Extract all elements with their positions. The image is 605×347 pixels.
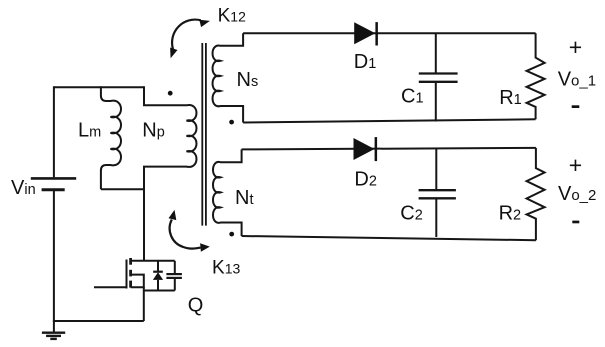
svg-text:Nt: Nt	[235, 187, 253, 209]
svg-text:Vo_1: Vo_1	[558, 68, 596, 90]
svg-text:Vin: Vin	[11, 177, 36, 199]
svg-text:D1: D1	[354, 51, 377, 73]
svg-text:Ns: Ns	[237, 69, 259, 91]
svg-text:D2: D2	[354, 169, 377, 191]
svg-text:+: +	[569, 152, 582, 178]
svg-text:Q: Q	[188, 295, 204, 317]
svg-text:Vo_2: Vo_2	[558, 183, 596, 205]
svg-text:K12: K12	[218, 6, 246, 27]
svg-text:R1: R1	[499, 87, 522, 109]
svg-text:C2: C2	[400, 202, 423, 224]
svg-text:+: +	[569, 34, 582, 60]
svg-text:Lm: Lm	[78, 120, 101, 142]
svg-text:C1: C1	[401, 86, 424, 108]
svg-text:Np: Np	[142, 120, 165, 142]
svg-text:R2: R2	[499, 203, 522, 225]
svg-text:K13: K13	[212, 257, 240, 278]
